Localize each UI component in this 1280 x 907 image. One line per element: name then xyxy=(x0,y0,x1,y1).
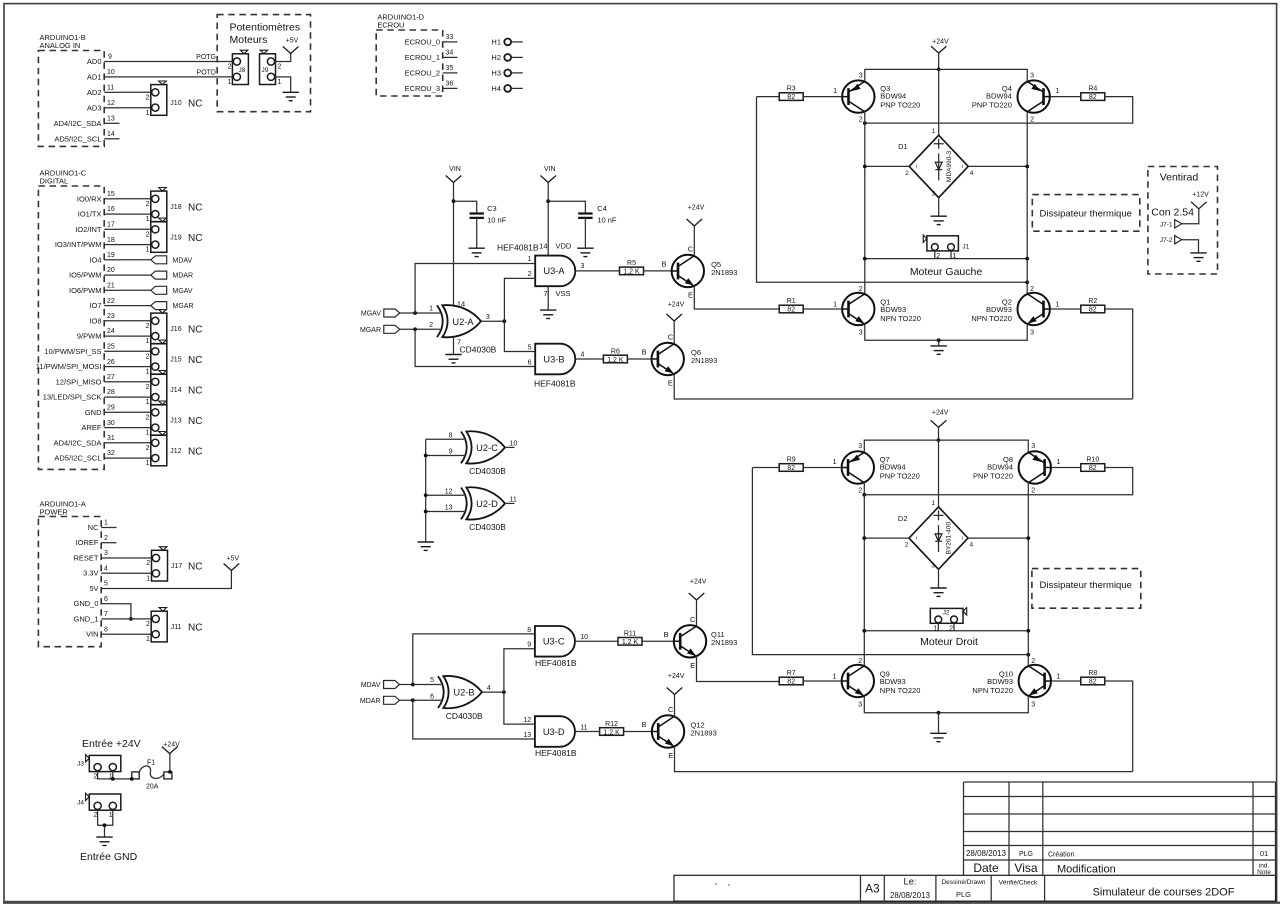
xor-gate U2-D CD4030B xyxy=(445,487,517,532)
capacitor C3 10nF xyxy=(470,204,507,224)
svg-text:POTD: POTD xyxy=(197,69,216,76)
wire R9 to cross net xyxy=(752,467,779,469)
diode bridge D1 MDA990-3 xyxy=(898,128,974,197)
svg-text:NC: NC xyxy=(188,562,202,573)
and-gate U3-B HEF4081B xyxy=(528,344,585,389)
ground U3-A VSS xyxy=(540,310,556,318)
svg-text:3: 3 xyxy=(1031,702,1035,709)
junction J4 ground xyxy=(103,823,107,827)
resistor R8 82 xyxy=(1081,670,1105,686)
wire R7 to Q9 base xyxy=(803,680,841,682)
svg-text:F1: F1 xyxy=(147,760,155,767)
svg-text:82: 82 xyxy=(1089,307,1097,314)
svg-text:14: 14 xyxy=(539,242,547,251)
svg-text:NC: NC xyxy=(188,202,202,213)
wire emitters ground stem Moteur Droit xyxy=(938,713,940,734)
wire GND_0 jog xyxy=(117,604,131,619)
wire MDAV riser to U3-C pin8 xyxy=(413,634,535,685)
svg-text:17: 17 xyxy=(107,222,115,229)
svg-text:2: 2 xyxy=(1031,487,1035,494)
resistor R7 82 xyxy=(779,670,803,686)
svg-text:IO3/INT/PWM: IO3/INT/PWM xyxy=(55,240,102,249)
wire VIN to J11 xyxy=(117,633,153,635)
power +24V Q5 xyxy=(687,205,705,226)
svg-text:~: ~ xyxy=(913,536,920,540)
wire RESET to J17 xyxy=(117,557,153,559)
wire R6 to Q6 base xyxy=(627,358,651,360)
svg-text:E: E xyxy=(668,379,673,388)
ground bridge diode Moteur Droit xyxy=(930,588,946,596)
junction bus left Moteur Gauche xyxy=(863,257,867,261)
mounting hole H3 xyxy=(491,69,522,78)
junction U2-A output xyxy=(503,319,507,323)
wire VIN1 to C3 xyxy=(454,201,477,213)
pin 5V (5) xyxy=(89,581,116,593)
net flag MGAR input xyxy=(360,325,400,334)
svg-text:R3: R3 xyxy=(787,86,796,93)
mounting hole H2 xyxy=(491,53,522,62)
svg-text:23: 23 xyxy=(107,313,115,320)
pin ECROU_1 (34) xyxy=(405,50,458,62)
pin GND_1 (7) xyxy=(73,611,116,623)
svg-text:+24V: +24V xyxy=(688,205,705,212)
pin RESET (3) xyxy=(73,550,116,562)
svg-text:ECROU_1: ECROU_1 xyxy=(405,53,440,62)
svg-text:2: 2 xyxy=(228,64,232,71)
svg-text:NC: NC xyxy=(188,355,202,366)
svg-text:1: 1 xyxy=(228,79,232,86)
svg-text:Date: Date xyxy=(973,861,999,875)
svg-text:NC: NC xyxy=(188,416,202,427)
svg-text:BDW93: BDW93 xyxy=(880,677,906,686)
wire pin 24 to J16 xyxy=(120,335,152,337)
svg-text:R8: R8 xyxy=(1088,670,1097,677)
svg-text:8: 8 xyxy=(449,433,453,440)
net flag MGAV xyxy=(151,286,193,295)
svg-text:3: 3 xyxy=(581,263,585,270)
svg-text:A3: A3 xyxy=(865,882,880,896)
svg-text:AD5/I2C_SCL: AD5/I2C_SCL xyxy=(54,454,101,463)
svg-text:C: C xyxy=(668,333,674,342)
wire U3-B out to R6 xyxy=(575,358,603,360)
svg-text:Entrée +24V: Entrée +24V xyxy=(82,738,141,750)
wire motor bus Moteur Gauche xyxy=(865,258,1027,260)
svg-text:DIGITAL: DIGITAL xyxy=(40,177,69,186)
wire Q11 collector to +24V xyxy=(696,600,698,627)
pin IO7 (22) xyxy=(89,298,119,310)
diode bridge D2 BY261-400 xyxy=(898,500,974,569)
svg-text:Le:: Le: xyxy=(904,877,917,887)
svg-text:AD4/I2C_SDA: AD4/I2C_SDA xyxy=(54,438,102,447)
svg-text:MGAR: MGAR xyxy=(173,303,194,310)
svg-text:Entrée GND: Entrée GND xyxy=(80,851,138,863)
svg-text:10 nF: 10 nF xyxy=(487,215,507,224)
svg-text:2: 2 xyxy=(94,774,98,781)
junction +24V rail Moteur Droit xyxy=(937,438,941,442)
wire Q6 emitter to R2 net xyxy=(674,374,1132,399)
svg-text:9: 9 xyxy=(449,449,453,456)
junction bus right Moteur Droit xyxy=(1026,629,1030,633)
junction U2-B output xyxy=(502,690,506,694)
wire J2 pins to motor bus xyxy=(938,623,954,631)
block Potentiometres Moteurs xyxy=(217,15,310,112)
wire pin 31 to J12 xyxy=(120,442,152,444)
svg-text:BDW94: BDW94 xyxy=(986,92,1012,101)
svg-text:1: 1 xyxy=(1057,673,1061,680)
ground C4 xyxy=(577,248,593,256)
svg-text:IO4: IO4 xyxy=(89,255,101,264)
svg-text:H2: H2 xyxy=(491,53,501,62)
svg-text:1: 1 xyxy=(528,256,532,263)
svg-text:BDW93: BDW93 xyxy=(987,677,1013,686)
wire U2-C pin9 xyxy=(426,455,464,457)
wire J3 pins down to fuse xyxy=(98,771,132,779)
junction MDAR riser xyxy=(411,698,415,702)
resistor R9 82 xyxy=(779,457,803,473)
wire pin 27 to J14 xyxy=(120,381,152,383)
wire right rail Moteur Droit xyxy=(1027,482,1029,666)
svg-text:AD5/I2C_SCL: AD5/I2C_SCL xyxy=(54,134,101,143)
svg-text:+24V: +24V xyxy=(668,302,685,309)
junction bus left Moteur Droit xyxy=(862,629,866,633)
resistor R5 1,2K xyxy=(620,260,644,276)
svg-text:MDAR: MDAR xyxy=(173,273,194,280)
resistor R12 1,2K xyxy=(600,721,624,737)
junction MGAR riser xyxy=(413,327,417,331)
svg-text:1,2 K: 1,2 K xyxy=(622,639,639,646)
fuse F1 20A xyxy=(132,760,172,791)
svg-text:+12V: +12V xyxy=(1192,191,1209,198)
svg-text:MGAV: MGAV xyxy=(173,288,193,295)
wire top rail Moteur Gauche xyxy=(865,69,1027,81)
wire R2 to driver emitter xyxy=(1105,309,1133,399)
pin NC (1) xyxy=(88,520,117,532)
svg-text:2: 2 xyxy=(146,445,150,452)
page bottom thick border xyxy=(3,902,1280,904)
connector J9 xyxy=(260,50,282,86)
wire pin 23 to J16 xyxy=(120,320,152,322)
svg-text:ECROU_2: ECROU_2 xyxy=(405,68,440,77)
pin AD4/I2C_SDA (31) xyxy=(54,435,120,447)
ground C3 xyxy=(469,248,485,256)
svg-text:1: 1 xyxy=(146,247,150,254)
svg-text:VIN: VIN xyxy=(86,630,99,639)
svg-text:AD3: AD3 xyxy=(87,103,102,112)
ground potentiometers xyxy=(283,92,299,100)
net flag MDAR input xyxy=(360,696,400,705)
svg-text:2N1893: 2N1893 xyxy=(691,728,717,737)
wire bridge diode right tap Moteur Droit xyxy=(968,537,1028,539)
ground unused inputs xyxy=(418,542,434,550)
svg-text:Moteurs: Moteurs xyxy=(230,34,268,46)
svg-text:PNP TO220: PNP TO220 xyxy=(880,101,920,110)
wire R5 to Q5 base xyxy=(644,270,672,272)
svg-text:U3-C: U3-C xyxy=(543,637,565,647)
svg-text:1: 1 xyxy=(833,673,837,680)
junction VIN2/C4 xyxy=(546,199,550,203)
svg-text:CD4030B: CD4030B xyxy=(469,466,506,476)
wire Q10 base to R8 xyxy=(1051,680,1081,682)
svg-text:J16: J16 xyxy=(170,326,181,333)
svg-text:Création: Création xyxy=(1048,852,1075,859)
svg-text:19: 19 xyxy=(107,252,115,259)
svg-text:4: 4 xyxy=(581,351,585,358)
and-gate U3-A HEF4081B xyxy=(497,242,585,299)
svg-text:Modification: Modification xyxy=(1057,864,1116,876)
svg-text:1,2 K: 1,2 K xyxy=(623,269,640,276)
svg-text:3: 3 xyxy=(858,702,862,709)
svg-text:8: 8 xyxy=(527,627,531,634)
svg-text:6: 6 xyxy=(528,360,532,367)
hierarchical pin J7-2 xyxy=(1160,236,1182,245)
wire POTD net xyxy=(120,69,234,77)
block ARDUINO1-C DIGITAL xyxy=(38,169,104,470)
svg-text:36: 36 xyxy=(446,81,454,88)
power +12V xyxy=(1191,191,1209,209)
wire MDAV to U2-B pin5 xyxy=(400,684,442,686)
svg-text:Vérifié/Check: Vérifié/Check xyxy=(999,880,1038,887)
svg-text:3: 3 xyxy=(486,314,490,321)
wire pin 30 to J13 xyxy=(120,427,152,429)
svg-text:11: 11 xyxy=(107,85,114,92)
svg-text:PLG: PLG xyxy=(1019,851,1033,858)
svg-text:VSS: VSS xyxy=(556,289,571,298)
ground ventirad xyxy=(1190,253,1206,261)
pin AREF (30) xyxy=(81,420,119,432)
svg-text:U3-D: U3-D xyxy=(543,727,565,737)
svg-text:1: 1 xyxy=(932,128,936,135)
wire left rail Moteur Droit xyxy=(863,482,865,666)
svg-text:ANALOG IN: ANALOG IN xyxy=(40,41,81,50)
power VIN 1 xyxy=(446,166,462,182)
svg-text:R2: R2 xyxy=(1088,298,1097,305)
svg-text:4: 4 xyxy=(487,685,491,692)
svg-text:2: 2 xyxy=(1030,117,1034,124)
svg-text:H4: H4 xyxy=(491,84,501,93)
connector J4 xyxy=(77,793,121,819)
wire Q12 collector to +24V xyxy=(674,695,676,717)
wire U3-C out to R11 xyxy=(575,640,618,642)
connector J19 xyxy=(146,218,203,254)
svg-text:21: 21 xyxy=(107,283,115,290)
svg-text:82: 82 xyxy=(1089,465,1097,472)
capacitor C4 10nF xyxy=(578,204,617,224)
block ARDUINO1-B ANALOG IN xyxy=(38,33,104,146)
svg-text:J9: J9 xyxy=(262,67,269,74)
svg-text:NC: NC xyxy=(88,523,99,532)
svg-text:11: 11 xyxy=(580,724,587,731)
wire pin 16 to J18 xyxy=(120,213,152,215)
svg-text:2: 2 xyxy=(858,658,862,665)
svg-text:5V: 5V xyxy=(89,584,98,593)
svg-text:H1: H1 xyxy=(491,38,501,47)
junction diode right rail Moteur Gauche xyxy=(1025,165,1029,169)
pin 9/PWM (24) xyxy=(77,328,120,340)
svg-text:10/PWM/SPI_SS: 10/PWM/SPI_SS xyxy=(44,347,101,356)
pin IO4 (19) xyxy=(89,252,119,264)
svg-text:C: C xyxy=(668,705,674,714)
connector J12 xyxy=(146,432,203,468)
ground emitters Moteur Gauche xyxy=(931,346,947,354)
svg-text:1: 1 xyxy=(146,575,150,582)
svg-text:J2: J2 xyxy=(943,610,950,617)
mounting hole H4 xyxy=(491,84,522,93)
svg-text:3: 3 xyxy=(932,191,936,198)
svg-text:AD4/I2C_SDA: AD4/I2C_SDA xyxy=(54,119,102,128)
svg-text:Visa: Visa xyxy=(1014,861,1037,875)
svg-text:IO2/INT: IO2/INT xyxy=(75,225,102,234)
wire U2-A output xyxy=(481,320,504,322)
wire riser to U3-A pin2 and U3-B pin5 xyxy=(504,278,535,351)
svg-text:11: 11 xyxy=(510,497,517,504)
svg-text:CD4030B: CD4030B xyxy=(469,522,506,532)
svg-text:82: 82 xyxy=(1089,94,1097,101)
svg-text:2: 2 xyxy=(859,117,863,124)
transistor Q7 BDW94 xyxy=(833,443,920,494)
svg-text:D2: D2 xyxy=(898,514,908,523)
wire fuse to +24V xyxy=(169,754,171,772)
svg-text:IO1/TX: IO1/TX xyxy=(78,210,102,219)
svg-text:1: 1 xyxy=(146,110,150,117)
svg-text:B: B xyxy=(641,348,646,357)
wire pin 17 to J19 xyxy=(120,228,152,230)
svg-text:13: 13 xyxy=(523,732,531,739)
svg-text:C4: C4 xyxy=(597,204,607,213)
svg-text:1: 1 xyxy=(931,500,935,507)
svg-text:Dissipateur thermique: Dissipateur thermique xyxy=(1040,580,1132,591)
svg-text:AD0: AD0 xyxy=(87,57,102,66)
wire pin 15 to J18 xyxy=(120,198,152,200)
svg-text:1: 1 xyxy=(278,79,282,86)
svg-text:28/08/2013: 28/08/2013 xyxy=(966,849,1007,858)
svg-text:POTG: POTG xyxy=(196,54,216,61)
connector J3 xyxy=(77,755,121,781)
wire U2-D output stub xyxy=(505,502,515,504)
svg-text:H3: H3 xyxy=(491,69,501,78)
junction GND_0/GND_1 xyxy=(129,617,133,621)
wire Q5 collector to +24V xyxy=(693,226,695,256)
svg-text:MDAV: MDAV xyxy=(361,682,381,689)
svg-text:2: 2 xyxy=(146,384,150,391)
svg-text:Simulateur de courses 2DOF: Simulateur de courses 2DOF xyxy=(1093,886,1235,898)
svg-text:J10: J10 xyxy=(170,100,181,107)
transistor Q8 BDW94 xyxy=(973,443,1061,494)
svg-text:R11: R11 xyxy=(624,631,636,638)
svg-text:CD4030B: CD4030B xyxy=(460,345,497,355)
svg-text:1: 1 xyxy=(146,636,150,643)
svg-text:2: 2 xyxy=(429,322,433,329)
svg-text:18: 18 xyxy=(107,237,115,244)
transistor Q11 2N1893 xyxy=(663,615,737,670)
svg-text:R1: R1 xyxy=(787,298,796,305)
svg-text:J13: J13 xyxy=(170,418,181,425)
power +24V entree xyxy=(162,741,180,753)
svg-text:2: 2 xyxy=(278,64,282,71)
wire bridge diode right tap Moteur Gauche xyxy=(968,165,1027,167)
svg-text:9: 9 xyxy=(527,642,531,649)
wire R8 to driver emitter xyxy=(1105,681,1133,772)
svg-text:IOREF: IOREF xyxy=(76,538,99,547)
junction emitters ground Moteur Droit xyxy=(937,711,941,715)
svg-text:Potentiomètres: Potentiomètres xyxy=(230,22,301,34)
svg-text:ECROU: ECROU xyxy=(377,21,404,30)
svg-text:IO8: IO8 xyxy=(89,316,101,325)
svg-text:E: E xyxy=(688,291,693,300)
svg-text:J11: J11 xyxy=(171,624,182,631)
junction cross right rail Moteur Droit xyxy=(1026,653,1030,657)
junction J3 pin1 xyxy=(111,777,115,781)
wire +12V to J7-1 xyxy=(1182,209,1199,224)
xor-gate U2-B CD4030B xyxy=(430,676,491,721)
wire cross feedback Moteur Gauche xyxy=(757,97,1028,283)
svg-text:12: 12 xyxy=(445,489,453,496)
and-gate U3-D HEF4081B xyxy=(523,716,587,758)
wire GND_1 to J11 xyxy=(117,618,153,620)
resistor R3 82 xyxy=(779,86,803,102)
wire C4 to ground xyxy=(584,218,586,248)
wire Q2 base to R2 xyxy=(1050,308,1081,310)
svg-text:GND_0: GND_0 xyxy=(73,599,98,608)
svg-text:82: 82 xyxy=(1089,679,1097,686)
xor-gate U2-C CD4030B xyxy=(449,431,518,476)
svg-text:3: 3 xyxy=(859,330,863,337)
svg-text:13/LED/SPI_SCK: 13/LED/SPI_SCK xyxy=(43,393,102,402)
svg-text:Dessiné/Drawn: Dessiné/Drawn xyxy=(941,879,985,886)
svg-text:R7: R7 xyxy=(787,670,796,677)
mounting hole H1 xyxy=(491,38,522,47)
svg-text:4: 4 xyxy=(970,542,974,549)
connector J10 xyxy=(146,81,203,117)
svg-text:13: 13 xyxy=(445,505,453,512)
svg-text:1: 1 xyxy=(146,399,150,406)
wire Q9 emitter to ground xyxy=(864,696,938,713)
svg-text:28: 28 xyxy=(107,389,115,396)
svg-text:J17: J17 xyxy=(171,563,182,570)
connector J11 xyxy=(146,608,202,644)
connector J15 xyxy=(146,340,203,376)
svg-text:2: 2 xyxy=(146,414,150,421)
svg-text:NC: NC xyxy=(188,446,202,457)
svg-text:30: 30 xyxy=(107,420,115,427)
svg-text:B: B xyxy=(663,630,668,639)
transistor Q12 2N1893 xyxy=(641,705,716,760)
wire C3 to ground xyxy=(476,218,478,248)
thermal box Dissipateur thermique 1 xyxy=(1032,195,1140,232)
pin GND (29) xyxy=(85,405,120,417)
svg-text:Dissipateur thermique: Dissipateur thermique xyxy=(1040,209,1132,220)
resistor R6 1,2K xyxy=(603,348,627,364)
connector J18 xyxy=(146,188,203,224)
wire 5V to +5V symbol xyxy=(117,571,232,589)
svg-text:IO5/PWM: IO5/PWM xyxy=(69,271,102,280)
svg-text:NPN TO220: NPN TO220 xyxy=(972,686,1013,695)
wire U3-A out to R5 xyxy=(575,270,619,272)
pin IO8 (23) xyxy=(89,313,119,325)
transistor Q3 BDW94 xyxy=(833,72,920,123)
svg-text:2: 2 xyxy=(1031,658,1035,665)
power VIN 2 xyxy=(540,166,556,182)
svg-text:28/08/2013: 28/08/2013 xyxy=(890,891,931,900)
svg-text:1,2 K: 1,2 K xyxy=(607,357,624,364)
svg-text:5: 5 xyxy=(528,345,532,352)
pin IO1/TX (16) xyxy=(78,206,120,218)
pin AD2 (11) xyxy=(87,85,120,97)
svg-text:31: 31 xyxy=(107,435,115,442)
svg-text:25: 25 xyxy=(107,344,115,351)
svg-text:1: 1 xyxy=(146,338,150,345)
svg-text:14: 14 xyxy=(107,131,115,138)
svg-text:VIN: VIN xyxy=(544,166,556,173)
